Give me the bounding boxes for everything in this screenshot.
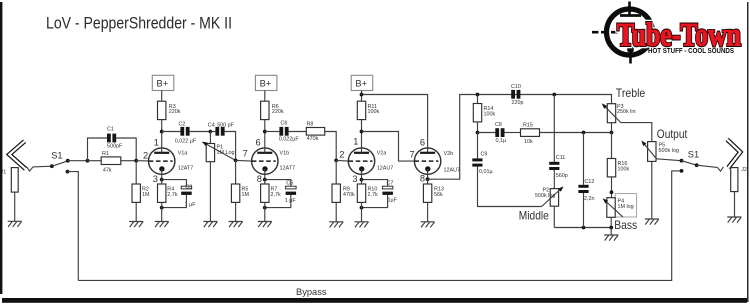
logo tube symbol plate lead (628, 6, 631, 15)
svg-text:56k: 56k (434, 192, 443, 198)
svg-text:6: 6 (420, 138, 425, 148)
node V1a cathode junction (160, 178, 164, 182)
border right line (747, 2, 749, 302)
svg-text:12AT7: 12AT7 (280, 165, 295, 171)
node B+ junction (360, 93, 364, 97)
node V1b grid junction (234, 159, 238, 163)
resistor R5 (231, 184, 239, 202)
svg-text:Output: Output (657, 128, 688, 141)
wire R14 to mid node (477, 122, 479, 133)
wire C9 down from mid node (477, 133, 479, 159)
wire R5 to ground (235, 202, 237, 221)
output jack J2 sleeve (731, 168, 738, 192)
wire C12 to bus (583, 193, 585, 228)
wire plate node to C2 (162, 131, 181, 133)
svg-text:J2: J2 (741, 167, 747, 173)
svg-text:1: 1 (353, 137, 358, 147)
svg-text:S1: S1 (688, 150, 699, 160)
ground R2 (129, 222, 143, 228)
switch S1 output top throw dot (680, 159, 684, 163)
B+ supply box 2 (255, 75, 277, 90)
wire C4 down to grid node (225, 132, 236, 161)
wire R5 down (235, 160, 237, 184)
P2 wiper arrow (542, 188, 562, 207)
node R14 top junction (476, 93, 480, 97)
svg-text:2,7k: 2,7k (271, 192, 281, 198)
logo top tick (628, 2, 631, 10)
node R7 bottom junction (263, 206, 267, 210)
P5 wiper arrow (643, 143, 656, 159)
triode V2b (414, 148, 440, 179)
svg-text:R15: R15 (523, 123, 533, 129)
ground V1b cathode (258, 222, 272, 228)
capacitor C4 plates (215, 127, 219, 136)
svg-text:Middle: Middle (519, 210, 549, 223)
node tone mid junction (476, 131, 480, 135)
svg-text:V1a: V1a (178, 151, 188, 157)
node C1 left junction (86, 159, 90, 163)
wire J2 sleeve to ground (734, 192, 736, 217)
wire node to V1a grid (136, 160, 149, 162)
svg-text:500k log: 500k log (659, 148, 679, 154)
node R16 P4 junction (610, 190, 614, 194)
resistor R2 (132, 184, 140, 202)
wire R2 to ground (135, 202, 137, 221)
border left bar (0, 2, 2, 294)
svg-text:C7: C7 (387, 180, 394, 186)
capacitor C1 plates (107, 134, 111, 143)
node R4 bottom junction (160, 206, 164, 210)
switch S1 input lever (52, 161, 68, 166)
logo crosshair ring (607, 9, 653, 55)
switch S1 output lever (682, 161, 697, 166)
svg-text:R1: R1 (102, 151, 109, 157)
wire node to V1b grid (236, 159, 252, 162)
capacitor C7 electrolytic (382, 186, 393, 189)
svg-text:1M Log: 1M Log (217, 150, 235, 156)
svg-text:500 pF: 500 pF (217, 122, 234, 128)
wire R4 to ground (161, 202, 163, 221)
switch S1 output pole dot (695, 163, 699, 167)
potentiometer P4 bass (607, 198, 615, 218)
ground J2 (727, 217, 741, 223)
capacitor C5 electrolytic (286, 186, 297, 189)
svg-text:J1: J1 (1, 169, 7, 175)
input jack J1 chevron (9, 141, 25, 169)
resistor R10 (357, 184, 365, 202)
wire V2b cathode to tone stack riser (428, 95, 612, 180)
svg-text:250k lin: 250k lin (617, 109, 636, 115)
capacitor C12 wire from mid line (583, 133, 585, 185)
node P3 bottom junction (610, 131, 614, 135)
svg-text:C3: C3 (185, 184, 192, 190)
triode V1b (252, 132, 278, 180)
svg-text:LoV - PepperShredder - MK II: LoV - PepperShredder - MK II (46, 14, 232, 33)
wire C7 loop top (362, 180, 388, 186)
wire P4 bottom to bus (610, 217, 612, 227)
node R10 bottom junction (360, 206, 364, 210)
capacitor C12 plates (578, 185, 588, 188)
svg-text:1M: 1M (242, 192, 250, 198)
svg-text:0,01µ: 0,01µ (479, 169, 493, 175)
svg-text:C2: C2 (179, 122, 186, 128)
ground R5 (229, 222, 243, 228)
svg-text:HOT STUFF - COOL SOUNDS: HOT STUFF - COOL SOUNDS (648, 46, 734, 55)
svg-text:C6: C6 (281, 121, 288, 127)
svg-text:220p: 220p (512, 100, 524, 106)
svg-text:2,7k: 2,7k (167, 192, 177, 198)
svg-text:Bass: Bass (614, 219, 637, 232)
capacitor C2 plates (180, 127, 184, 136)
ground P5 (645, 219, 659, 225)
capacitor C9 plates (472, 158, 482, 161)
svg-text:100k: 100k (618, 166, 630, 172)
capacitor C8 plates (495, 128, 499, 137)
resistor R4 (158, 184, 166, 202)
svg-text:7: 7 (243, 148, 248, 158)
B+ supply box 3 (351, 75, 373, 90)
svg-text:0,1µ: 0,1µ (496, 138, 507, 144)
svg-text:Treble: Treble (616, 87, 646, 100)
svg-text:470k: 470k (343, 192, 355, 198)
svg-text:1µF: 1µF (388, 198, 398, 204)
wire B+ to R6 (264, 91, 266, 102)
wire P3 wiper to P5 (620, 123, 651, 142)
resistor R14 (477, 95, 479, 104)
wire node to V2a grid (336, 159, 348, 162)
svg-text:C8: C8 (495, 122, 502, 128)
wire R15 to P3 bottom node (540, 132, 612, 134)
resistor R8 (306, 128, 324, 136)
P3 wiper arrow (604, 105, 621, 122)
switch S1 input top throw dot (66, 159, 70, 163)
resistor R9 (332, 184, 340, 202)
potentiometer P3 treble (607, 104, 615, 123)
bypass bus wire (78, 171, 681, 281)
ground J1 (8, 221, 22, 227)
wire B+ to R3 (161, 91, 163, 102)
wire R10 to ground (361, 202, 363, 221)
svg-text:500k log: 500k log (535, 193, 555, 199)
Tube-Town logo (592, 2, 741, 64)
potentiometer P2 middle (550, 189, 558, 207)
potentiometer P5 output (648, 142, 656, 162)
svg-text:2,2n: 2,2n (584, 196, 595, 202)
wire J1 to S1 pole (33, 165, 52, 168)
svg-text:470k: 470k (307, 136, 319, 142)
wire R16 to P4 node (611, 177, 613, 198)
wire J1 sleeve to ground (14, 192, 16, 221)
wire S1 to C1 node (68, 160, 88, 162)
ground V2a cathode (355, 222, 369, 228)
logo tube symbol cathode dot (627, 46, 634, 53)
node V2a grid junction (334, 159, 338, 163)
node V1b plate junction (263, 130, 267, 134)
svg-text:S1: S1 (51, 150, 62, 160)
svg-text:1M: 1M (142, 192, 150, 198)
wire C5 loop top (265, 180, 291, 186)
capacitor C11 plates (549, 162, 559, 165)
svg-text:0,022µF: 0,022µF (279, 137, 300, 143)
P1 wiper arrow (204, 143, 236, 161)
capacitor C10 plates (511, 90, 515, 99)
svg-text:7: 7 (410, 149, 415, 159)
ground P1 (203, 222, 217, 228)
resistor R3 (158, 101, 166, 119)
svg-text:220k: 220k (272, 109, 284, 115)
resistor R15 (521, 129, 540, 137)
ground R13 (421, 222, 435, 228)
wire C11 to P2 (553, 170, 555, 189)
triode V1a (149, 132, 175, 180)
svg-text:C11: C11 (556, 155, 566, 161)
svg-text:2: 2 (339, 149, 344, 159)
svg-text:V2a: V2a (377, 151, 387, 157)
wire R7 to ground (264, 202, 266, 221)
wire B+ to node (361, 91, 363, 102)
wire cathode to R7 (264, 180, 266, 184)
wire R8 down to V2a grid node (325, 132, 337, 161)
wire R9 to ground (335, 202, 337, 221)
tone bottom bus wire (554, 227, 611, 229)
wire C8 to R15 (505, 132, 521, 134)
resistor R6 (261, 101, 269, 119)
resistor R13 (423, 184, 431, 202)
svg-text:500pF: 500pF (107, 144, 123, 150)
node V2a cathode junction (360, 178, 364, 182)
node V1b cathode junction (263, 178, 267, 182)
ground V1a cathode (155, 222, 169, 228)
wire cathode to R4 (161, 180, 163, 184)
logo bottom tick (629, 57, 632, 64)
J1 tip contact zigzag (26, 167, 33, 172)
resistor R7 (261, 184, 269, 202)
node V2b cathode junction (426, 177, 430, 181)
svg-text:12AU7: 12AU7 (377, 165, 393, 171)
P4 wiper arrow (604, 200, 622, 217)
logo tube symbol plate bar (620, 14, 641, 17)
svg-text:B+: B+ (355, 79, 367, 89)
logo left dashed crosshair (592, 31, 618, 34)
wire R13 to ground (427, 202, 429, 221)
switch S1 input pole dot (50, 164, 54, 168)
svg-text:12AT7: 12AT7 (178, 165, 193, 171)
wire C9 to middle pot wiper (478, 167, 542, 207)
wire R1 to grid node (121, 160, 136, 162)
wire S1 pole to J2 (697, 165, 718, 167)
J2 tip contact zigzag (717, 167, 723, 171)
node P1 top junction (209, 130, 213, 134)
svg-text:8: 8 (420, 174, 425, 184)
wire C3 loop bottom (162, 195, 187, 208)
svg-text:12AU7: 12AU7 (444, 168, 460, 174)
triode V2a (348, 132, 374, 180)
switch S1 input bottom throw dot (66, 170, 70, 174)
wire R6 to plate node (264, 120, 266, 132)
svg-text:100k: 100k (484, 112, 496, 118)
node bus ground junction (609, 226, 613, 230)
wire P2 bottom to bus (553, 206, 555, 227)
svg-text:0,022 µF: 0,022 µF (175, 139, 197, 145)
P4 label frame (615, 194, 636, 217)
wire R11 to plate node (361, 120, 363, 132)
svg-text:V1b: V1b (280, 151, 290, 157)
wire C7 loop bottom (362, 195, 388, 208)
svg-text:220k: 220k (169, 109, 181, 115)
wire node to C4 (210, 131, 215, 133)
wire C3 loop top (162, 180, 187, 186)
capacitor C3 electrolytic (181, 186, 192, 189)
node C11 top junction (552, 93, 556, 97)
svg-text:1: 1 (154, 138, 159, 148)
wire C5 loop bottom (265, 195, 291, 208)
capacitor C6 plates (279, 127, 283, 136)
svg-text:C10: C10 (511, 84, 521, 90)
svg-text:1M log: 1M log (618, 204, 634, 210)
svg-text:C5: C5 (286, 181, 293, 187)
wire S1 bottom throw to bypass riser (68, 172, 79, 281)
svg-text:3: 3 (352, 174, 357, 184)
svg-text:B+: B+ (157, 79, 169, 89)
wire R3 to plate node (161, 120, 163, 132)
svg-text:C9: C9 (481, 152, 488, 158)
wire B+ node to V2b plate (362, 95, 428, 153)
wire P5 bottom to ground (651, 161, 653, 219)
wire P5 wiper to switch (656, 159, 681, 161)
wire node to R1 (88, 160, 102, 162)
svg-text:C12: C12 (585, 179, 595, 185)
wire R9 down (335, 160, 337, 184)
node V2a plate junction (360, 130, 364, 134)
capacitor C11 wire from top node (553, 95, 555, 162)
wire C6 to R8 (289, 131, 307, 133)
resistor R16 (607, 159, 615, 177)
wire cathode to R13 (427, 179, 429, 184)
svg-text:8: 8 (257, 174, 262, 184)
svg-text:6: 6 (256, 138, 261, 148)
resistor R1 (101, 157, 121, 165)
svg-text:560p: 560p (556, 173, 568, 179)
wire P1 to ground (209, 162, 211, 222)
wire P3 bottom to node (611, 123, 613, 133)
resistor R11 (357, 101, 365, 119)
wire C1 parallel loop right (116, 138, 136, 161)
wire R16 from node (611, 133, 613, 159)
svg-text:3: 3 (153, 174, 158, 184)
wire direct coupling V2a plate to V2b grid (362, 132, 415, 162)
wire mid node to C8 (478, 132, 496, 134)
svg-text:C4: C4 (208, 122, 215, 128)
svg-text:10k: 10k (524, 139, 533, 145)
wire C1 parallel loop left (88, 138, 108, 161)
output jack J2 chevron (727, 140, 740, 168)
switch S1 output bottom throw dot (680, 169, 684, 173)
wire cathode to R10 (361, 180, 363, 184)
node R1/R2/C1 junction (134, 159, 138, 163)
wire plate node to C6 (265, 131, 280, 133)
node C12 bottom junction (582, 226, 586, 230)
ground tone stack (604, 235, 618, 241)
svg-text:R8: R8 (307, 121, 314, 127)
B+ supply box 1 (152, 75, 174, 90)
potentiometer P1 (209, 132, 211, 144)
wire C2 to P1 node (190, 131, 211, 133)
svg-text:47k: 47k (103, 167, 112, 173)
svg-text:2,7k: 2,7k (368, 192, 378, 198)
wire bus to ground (610, 228, 612, 236)
ground R9 (329, 222, 343, 228)
svg-text:V2b: V2b (444, 151, 454, 157)
node V1a plate junction (160, 130, 164, 134)
input jack J1 sleeve (11, 168, 18, 193)
svg-text:2: 2 (143, 151, 148, 161)
svg-text:C1: C1 (107, 127, 114, 133)
svg-text:100k: 100k (368, 109, 380, 115)
node C12 branch junction (582, 131, 586, 135)
svg-text:B+: B+ (260, 79, 272, 89)
svg-text:Bypass: Bypass (296, 287, 327, 297)
wire R2 down from node (135, 161, 137, 184)
border bottom bar (2, 298, 747, 303)
